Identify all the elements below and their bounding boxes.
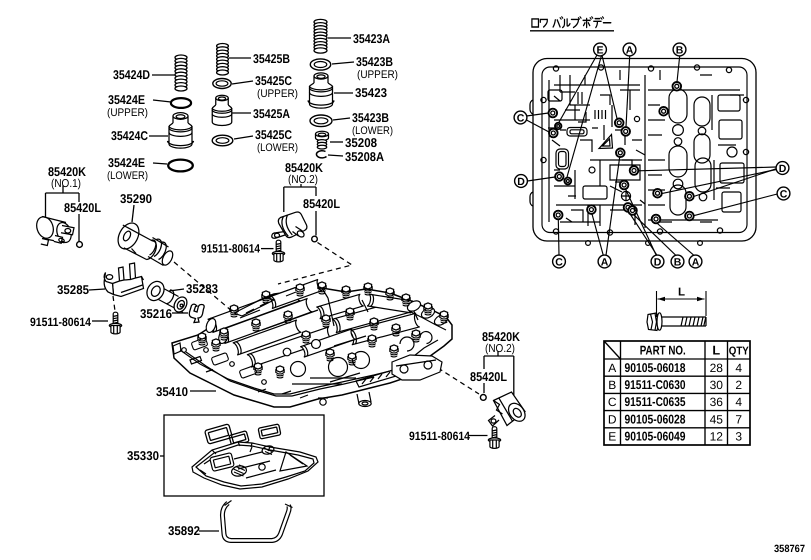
leader 35424C — [149, 135, 168, 137]
svg-text:C: C — [608, 395, 617, 409]
hole flange hole 12 — [657, 229, 662, 234]
svg-text:(LOWER): (LOWER) — [107, 170, 148, 182]
leader 35208A — [328, 155, 343, 156]
svg-text:B: B — [676, 44, 684, 56]
leader 35425C lower — [234, 136, 253, 139]
leader 85420K no1 bracket — [62, 186, 64, 194]
o-ring 85420L no1 — [77, 242, 83, 248]
valve body 35410 — [172, 279, 452, 407]
o-ring 35424E (LOWER) — [168, 160, 193, 172]
svg-text:A: A — [626, 44, 634, 56]
leader letter line D-bottom b — [629, 212, 658, 256]
circled letter B (top B) — [673, 43, 686, 56]
bracket 35285 — [104, 263, 143, 297]
circled letter A (bottom A2) — [689, 255, 702, 268]
svg-text:E: E — [608, 430, 616, 444]
leader letter line C-bottom — [557, 219, 560, 255]
gasket 3 — [258, 424, 281, 439]
hole flange hole 7 — [541, 157, 546, 162]
hole flange hole 8 — [743, 97, 748, 102]
svg-text:90105-06018: 90105-06018 — [625, 361, 686, 375]
dashed line body to 85420L no2 lower — [438, 368, 479, 394]
leader letter line D-bottom a — [626, 189, 657, 255]
svg-text:L: L — [678, 287, 685, 299]
leader 85420K no1 right leg b — [78, 214, 80, 241]
leader letter line D-right c — [694, 169, 777, 197]
svg-text:B: B — [674, 256, 682, 268]
bolt hole C-right target — [685, 212, 694, 221]
circled letter E (top E) — [594, 43, 607, 56]
svg-text:A: A — [692, 256, 700, 268]
hole flange hole 10 — [553, 229, 558, 234]
solenoid 85420K (NO.1) — [34, 215, 74, 246]
bolt hole E target 3 — [564, 178, 571, 185]
svg-text:85420K: 85420K — [482, 330, 521, 344]
dashed line 35290 to body — [174, 262, 233, 312]
svg-text:35423B: 35423B — [356, 55, 393, 69]
svg-text:D: D — [779, 163, 787, 175]
svg-text:C: C — [780, 188, 788, 200]
circled letter D (bottom D) — [651, 255, 664, 268]
bolt hole B-top target — [673, 82, 682, 91]
valve body mounting bolts — [198, 282, 448, 378]
svg-text:35208A: 35208A — [345, 150, 384, 164]
o-ring 35425C (LOWER) — [212, 135, 233, 146]
leader 35423 — [334, 92, 353, 94]
circled letter C (left C) — [514, 111, 527, 124]
svg-text:35410: 35410 — [156, 385, 188, 399]
bolt hole D-right target 2 — [653, 189, 662, 198]
leader 35424D — [152, 74, 175, 76]
gasket 1 — [205, 424, 233, 444]
svg-text:E: E — [596, 44, 603, 56]
leader 35423B lower — [333, 118, 350, 120]
plug 35208 — [316, 131, 329, 149]
bolt hole D-right target 3 — [685, 192, 694, 201]
svg-text:(UPPER): (UPPER) — [107, 107, 148, 119]
bolt hole C-left 1 — [549, 109, 558, 118]
leader 85420K no2 h — [284, 186, 316, 188]
leader 35423B upper — [332, 62, 354, 64]
clip 35216 — [189, 304, 204, 322]
svg-text:2: 2 — [735, 378, 742, 392]
bolt hole A-bottom-right target — [652, 215, 661, 224]
bolt hole A-bottom target 2 — [616, 149, 625, 158]
svg-text:91511-80614: 91511-80614 — [201, 242, 260, 256]
solenoid 35290 — [114, 219, 175, 266]
leader letter line A-bottom b — [606, 157, 620, 255]
hole flange hole 11 — [607, 230, 612, 235]
leader 35285 — [89, 289, 105, 290]
bolt hole C-bottom target — [554, 211, 563, 220]
leader letter line C-right — [694, 194, 778, 216]
o-ring 85420L no2 — [312, 236, 318, 242]
bolt hole E target 1 — [555, 123, 561, 129]
spring 35423A — [314, 19, 327, 53]
svg-text:35208: 35208 — [345, 136, 377, 150]
solenoid 85420K (NO.2) top — [272, 212, 307, 238]
strainer detail square — [210, 453, 235, 472]
tube 35892 — [222, 501, 292, 541]
leader 85420K no2b right leg — [513, 356, 515, 399]
leader 35424E upper — [153, 100, 171, 102]
leader 85420K no2b left leg b — [483, 383, 485, 393]
leader 35216 — [172, 312, 188, 314]
svg-text:35425B: 35425B — [253, 52, 290, 66]
svg-text:(NO.1): (NO.1) — [51, 178, 81, 190]
svg-text:35892: 35892 — [168, 524, 200, 538]
valve 35424C — [168, 113, 194, 149]
leader 85420K no2b h — [484, 355, 514, 357]
leader letter line E b — [602, 55, 617, 118]
leader 35425B — [229, 57, 251, 59]
Japanese title: Lower Valve Body — [532, 17, 611, 28]
leader 85420K no1 bracket h — [46, 192, 80, 194]
svg-text:(UPPER): (UPPER) — [357, 69, 398, 81]
leader 85420K no2b left leg a — [483, 356, 485, 369]
title underline — [530, 30, 614, 32]
bolt 91511-80614 mid — [272, 240, 284, 262]
solenoid 85420K (NO.2) bottom-right — [489, 392, 529, 426]
svg-text:35424D: 35424D — [113, 68, 150, 82]
bolt hole D-bottom target 1 — [620, 181, 629, 190]
bolt hole plain bolt 1 — [659, 107, 668, 116]
svg-text:85420K: 85420K — [285, 161, 324, 175]
dashed line 85420L no2 to body — [278, 243, 352, 285]
svg-text:35424C: 35424C — [111, 129, 148, 143]
leader letter line D-right b — [662, 170, 777, 194]
leader 35283 — [169, 289, 184, 291]
circled letter A (top A) — [623, 43, 636, 56]
o-ring 85420L no2b — [480, 395, 486, 401]
svg-text:90105-06028: 90105-06028 — [625, 412, 686, 426]
hole flange hole 3 — [648, 66, 653, 71]
svg-text:(NO.2): (NO.2) — [485, 343, 515, 355]
leader 35424E lower — [153, 163, 167, 164]
bolt hole D-left target — [555, 172, 563, 180]
svg-text:C: C — [517, 112, 525, 124]
hole flange hole 13 — [717, 228, 722, 233]
dashed line 35285 to bolt — [113, 296, 115, 311]
svg-text:85420K: 85420K — [48, 165, 87, 179]
leader 91511-80614 right — [468, 435, 488, 437]
leader 35423A — [328, 37, 351, 39]
hole flange hole 5 — [726, 67, 731, 72]
bolt hole D-right target 1 — [630, 166, 639, 175]
svg-text:35423A: 35423A — [353, 32, 390, 46]
svg-text:35423: 35423 — [355, 86, 387, 100]
bolt hole A-bottom target 1 — [587, 205, 596, 214]
leader letter line C-left a — [527, 113, 549, 116]
leader 85420K no2 stem — [300, 184, 302, 187]
circled letter C (bottom C) — [553, 255, 566, 268]
leader 85420K no2b stem — [497, 352, 499, 357]
part 35283 — [144, 278, 190, 314]
leader 85420K no1 right leg a — [78, 193, 80, 202]
svg-text:C: C — [555, 256, 563, 268]
svg-text:A: A — [608, 361, 616, 375]
svg-text:358767: 358767 — [774, 543, 805, 555]
o-ring 35423B (UPPER) — [310, 59, 330, 70]
o-ring 35423B (LOWER) — [310, 115, 332, 127]
svg-text:4: 4 — [735, 361, 742, 375]
svg-text:12: 12 — [710, 430, 724, 444]
o-ring 35425C (UPPER) — [213, 79, 231, 89]
bolt hole A-top target — [621, 127, 630, 136]
leader 85420K no2 right leg a — [315, 187, 317, 196]
bolt hole D-bottom target 2 — [624, 203, 633, 212]
leader 85420K no1 left leg — [45, 193, 47, 218]
svg-text:35425C: 35425C — [255, 74, 292, 88]
svg-text:91511-C0635: 91511-C0635 — [625, 395, 686, 409]
svg-text:28: 28 — [710, 361, 724, 375]
leader letter line B-top — [677, 56, 680, 82]
hole flange hole 4 — [694, 65, 699, 70]
reference bolt with L dimension — [647, 291, 706, 331]
svg-text:90105-06049: 90105-06049 — [625, 430, 686, 444]
leader 35208 — [330, 141, 343, 143]
strainer detail circles — [231, 445, 275, 478]
leader letter line D-left — [527, 177, 555, 181]
leader 35892 — [199, 530, 219, 532]
svg-text:35425C: 35425C — [255, 128, 292, 142]
svg-text:3: 3 — [735, 430, 742, 444]
lower valve body top view outline — [530, 59, 756, 242]
svg-text:35285: 35285 — [57, 283, 89, 297]
circled letter C (right C) — [777, 187, 790, 200]
hole flange hole 9 — [743, 149, 748, 154]
spring 35425B — [217, 44, 229, 76]
bolt hole E target 2 — [615, 119, 624, 128]
leader 35290 — [132, 205, 134, 222]
bolt 91511-80614 right — [488, 427, 500, 449]
oil strainer 35330 — [192, 442, 318, 489]
svg-text:35423B: 35423B — [352, 111, 389, 125]
circled letter A (bottom A1) — [598, 255, 611, 268]
top view interior details — [548, 70, 744, 245]
hole flange hole 2 — [598, 65, 603, 70]
svg-text:D: D — [654, 256, 662, 268]
svg-text:(UPPER): (UPPER) — [257, 88, 298, 100]
frame box for 35330 — [164, 415, 324, 496]
svg-text:35425A: 35425A — [253, 107, 290, 121]
svg-text:7: 7 — [735, 412, 742, 426]
svg-text:85420L: 85420L — [470, 370, 507, 384]
leader 85420K no2 left leg — [283, 187, 285, 212]
parts table — [604, 341, 750, 445]
c-clip 35208A — [316, 151, 326, 158]
bolt hole B-bottom target — [628, 206, 637, 215]
leader letter line B-bottom — [634, 215, 677, 256]
leader 91511-80614 mid — [261, 248, 274, 250]
leader 35425C upper — [232, 81, 253, 84]
svg-text:(NO.2): (NO.2) — [288, 174, 318, 186]
o-ring 35424E (UPPER) — [171, 98, 191, 108]
svg-text:85420L: 85420L — [64, 201, 101, 215]
svg-text:35330: 35330 — [127, 449, 159, 463]
svg-text:85420L: 85420L — [303, 197, 340, 211]
hole flange hole 1 — [553, 66, 558, 71]
svg-text:4: 4 — [735, 395, 742, 409]
leader letter line A-top — [626, 56, 630, 127]
svg-text:35424E: 35424E — [108, 93, 145, 107]
leader letter line E a — [559, 55, 597, 123]
leader 91511-80614 left — [92, 320, 108, 322]
leader letter line A-bottom a — [592, 214, 603, 255]
svg-text:B: B — [608, 378, 616, 392]
svg-text:91511-80614: 91511-80614 — [30, 315, 91, 329]
circled letter D (right D) — [776, 162, 789, 175]
svg-text:30: 30 — [710, 378, 724, 392]
spring 35424D — [175, 55, 187, 91]
circled letter B (bottom B) — [671, 255, 684, 268]
bolt hole C-left 2 — [549, 129, 558, 138]
leader 35330 — [160, 455, 164, 457]
hole flange hole 6 — [541, 97, 546, 102]
leader letter line A-bottom-right — [657, 223, 694, 255]
svg-text:PART NO.: PART NO. — [640, 344, 686, 358]
leader 35410 — [190, 390, 216, 392]
svg-text:35290: 35290 — [120, 192, 152, 206]
valve 35423 — [308, 73, 334, 108]
leader letter line D-right a — [638, 167, 776, 171]
leader letter line C-left b — [527, 120, 550, 132]
svg-text:91511-C0630: 91511-C0630 — [625, 378, 686, 392]
leader 35425A — [232, 112, 251, 114]
svg-text:36: 36 — [710, 395, 724, 409]
svg-text:35283: 35283 — [186, 282, 218, 296]
valve 35425A — [212, 95, 232, 125]
svg-text:A: A — [601, 256, 609, 268]
svg-text:35216: 35216 — [140, 307, 172, 321]
leader letter line E c — [567, 56, 602, 178]
svg-text:D: D — [517, 176, 525, 188]
svg-text:35424E: 35424E — [108, 156, 145, 170]
svg-text:QTY: QTY — [729, 346, 749, 358]
svg-text:D: D — [608, 412, 617, 426]
svg-text:91511-80614: 91511-80614 — [409, 429, 470, 443]
gasket 2 — [229, 431, 249, 447]
leader 85420K no2 right leg b — [315, 211, 317, 236]
svg-text:(LOWER): (LOWER) — [257, 142, 298, 154]
bolt 91511-80614 left — [109, 312, 121, 334]
svg-text:L: L — [712, 344, 720, 358]
circled letter D (left D) — [515, 175, 528, 188]
svg-text:45: 45 — [710, 412, 724, 426]
